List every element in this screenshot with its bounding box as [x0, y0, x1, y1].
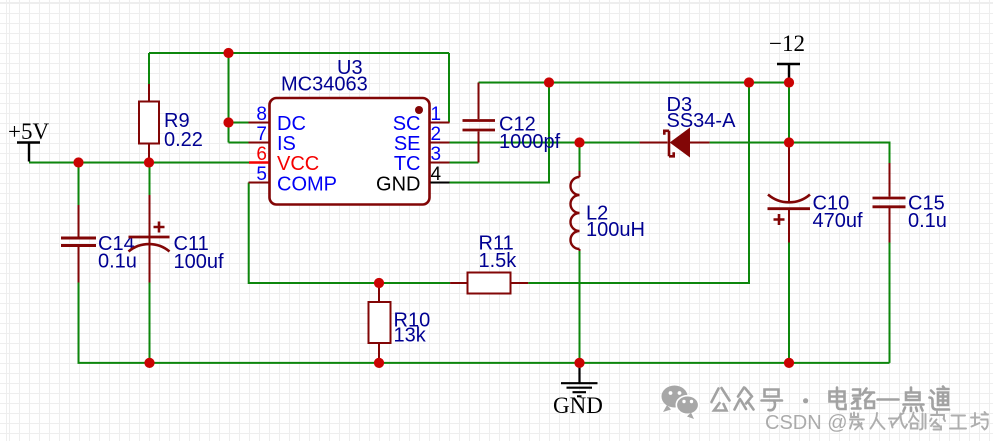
svg-text:−12: −12 [769, 31, 805, 56]
svg-text:TC: TC [394, 153, 421, 175]
junction dot +5V/R9 [144, 157, 154, 167]
svg-text:DC: DC [277, 113, 306, 135]
wire diode output net [450, 143, 890, 164]
svg-text:0.1u: 0.1u [908, 210, 947, 232]
pin 3 TC [394, 144, 450, 175]
pin 4 GND [376, 164, 449, 196]
wire C14 to bottom rail [78, 283, 80, 363]
svg-text:2: 2 [431, 124, 442, 145]
svg-text:0.1u: 0.1u [98, 251, 137, 273]
ground GND [553, 363, 603, 418]
wire C11 to bottom rail [149, 283, 151, 363]
junction dot -12 rail C10 [784, 77, 794, 87]
svg-text:8: 8 [256, 104, 267, 125]
pin 8 DC [249, 104, 306, 135]
junction dot bottom L2 GND [574, 358, 584, 368]
wire C11 branch [149, 163, 151, 196]
capacitor C14 [61, 205, 137, 283]
capacitor C15 [873, 163, 947, 243]
wire COMP feedback [249, 183, 450, 284]
svg-text:SC: SC [393, 113, 421, 135]
svg-text:7: 7 [256, 124, 267, 145]
wire C10 branch [788, 243, 790, 363]
pin 5 COMP [249, 164, 338, 196]
junction dot diode L2 [574, 137, 584, 147]
junction dot pin8 branch [223, 117, 233, 127]
pin 1 SC [393, 104, 450, 135]
op-amp U3 MC34063 IC body [270, 57, 430, 205]
svg-text:MC34063: MC34063 [281, 74, 368, 96]
svg-text:1: 1 [431, 104, 442, 125]
svg-text:GND: GND [553, 393, 603, 418]
svg-text:3: 3 [431, 144, 442, 165]
wire C14 branch [78, 163, 80, 206]
svg-text:COMP: COMP [277, 174, 337, 196]
junction dot COMP R10 [374, 278, 384, 288]
junction dot bottom R10 [374, 358, 384, 368]
junction dot -12 rail R11 [744, 77, 754, 87]
svg-text:6: 6 [256, 144, 267, 165]
watermark text CSDN [765, 412, 848, 434]
svg-text:GND: GND [376, 174, 420, 196]
junction dot +5V/C14 [73, 157, 83, 167]
watermark text qianrushi chuangke gongfang [850, 412, 988, 430]
wire top net R9 to pin1 [149, 53, 449, 143]
wire bottom ground rail [78, 362, 890, 364]
power -12 [769, 31, 805, 82]
junction dot bottom C10 [784, 358, 794, 368]
power +5V [8, 119, 49, 162]
junction dot diode C10 [784, 137, 794, 147]
svg-text:IS: IS [277, 133, 296, 155]
diode D3 SS34-A [640, 94, 736, 157]
resistor R11 [450, 233, 528, 294]
svg-text:1.5k: 1.5k [479, 250, 518, 272]
svg-text:13k: 13k [394, 325, 427, 347]
wire C15 branch [889, 243, 891, 363]
wire L2 branch [579, 143, 581, 363]
svg-text:1000pf: 1000pf [499, 131, 561, 153]
svg-text:0.22: 0.22 [164, 129, 203, 151]
svg-text:SE: SE [394, 133, 421, 155]
svg-text:470uf: 470uf [813, 210, 863, 232]
pin 1 marker dot [415, 106, 423, 114]
capacitor C10 polarized [768, 147, 863, 243]
capacitor C11 polarized [129, 195, 224, 283]
watermark text gong zhong hao dot dianlu yidiantong [712, 387, 950, 412]
wire -12 top rail [450, 83, 790, 284]
svg-text:5: 5 [256, 164, 267, 185]
wire TC to C12 [450, 162, 479, 164]
pin 6 VCC [249, 144, 319, 175]
pin 7 IS [249, 124, 296, 155]
resistor R9 [139, 84, 203, 162]
svg-text:CSDN @: CSDN @ [765, 412, 848, 434]
svg-text:+5V: +5V [8, 119, 49, 144]
junction dot bottom C11 [144, 358, 154, 368]
watermark wechat icon [662, 386, 699, 420]
svg-text:VCC: VCC [277, 153, 319, 175]
wire +5V rail [29, 162, 249, 164]
resistor R10 [369, 283, 431, 363]
svg-text:100uH: 100uH [586, 219, 645, 241]
capacitor C12 [463, 83, 561, 163]
pin 2 SE [394, 124, 450, 155]
svg-text:4: 4 [431, 164, 442, 185]
svg-text:100uf: 100uf [174, 251, 224, 273]
inductor L2 [571, 171, 645, 251]
junction dot -12 rail pin4 [544, 77, 554, 87]
svg-text:SS34-A: SS34-A [667, 110, 737, 132]
junction dot top net [223, 48, 233, 58]
